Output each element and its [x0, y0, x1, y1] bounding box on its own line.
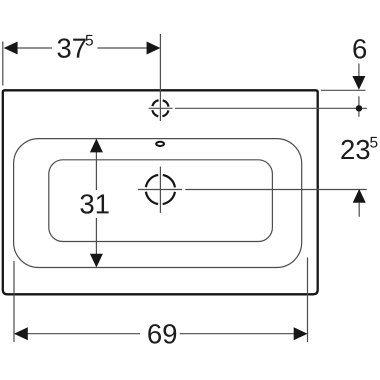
tap hole horizontal centerline — [149, 107, 173, 109]
drain hole circle — [146, 175, 175, 204]
dimension 23.5: vertical tick through dot — [358, 96, 360, 117]
tap hole vertical centerline / extension line — [159, 34, 161, 121]
drain leader line to right — [185, 189, 366, 191]
dimension 37.5: left extension line — [2, 42, 4, 86]
tap hole circle — [152, 100, 169, 117]
basin bowl outline — [49, 160, 273, 242]
overflow slot — [156, 142, 164, 146]
dimension 6: extension line from rim corner — [321, 89, 366, 91]
label superscript 5 of 23.5 — [370, 137, 377, 148]
tap hole leader line to right — [175, 107, 367, 109]
dimension 37.5: line right segment — [98, 47, 160, 49]
dimension 31: line lower segment — [95, 218, 97, 267]
label 69 (dimension 69) — [148, 324, 176, 343]
dimension 37.5: line left segment — [5, 47, 53, 49]
washbasin outer edge — [3, 90, 318, 294]
dimension 31: up arrow — [90, 139, 103, 153]
label 6 (dimension 6) — [353, 39, 366, 58]
dimension 23.5: vertical line below arrow — [358, 203, 360, 217]
label superscript 5 of 37.5 — [86, 35, 93, 46]
dimension 69: line right segment — [180, 333, 307, 335]
drain hole vertical centerline — [159, 167, 161, 213]
dimension 69: left arrow — [14, 327, 28, 340]
dimension 37.5: right arrow — [147, 42, 161, 55]
drain hole horizontal centerline — [138, 189, 182, 191]
washbasin rim inner edge — [14, 139, 302, 268]
dimension 6: down arrow — [352, 76, 365, 90]
dimension 6: vertical line below label — [358, 64, 360, 78]
label 31 (dimension 31) — [80, 194, 108, 213]
dimension 31: down arrow — [90, 254, 103, 268]
dimension 69: right arrow — [294, 327, 308, 340]
dimension 23.5: up arrow — [353, 189, 366, 203]
dimension 23.5: dot terminator — [356, 105, 362, 111]
dimension 69: right extension line — [307, 258, 309, 343]
label 37 (dimension 37.5) — [58, 38, 86, 57]
dimension 69: line left segment — [15, 333, 140, 335]
dimension 37.5: left arrow — [4, 42, 18, 55]
dimension 31: line upper segment — [95, 140, 97, 191]
dimension 69: left extension line — [13, 261, 15, 342]
label 23 (dimension 23.5) — [341, 140, 369, 159]
